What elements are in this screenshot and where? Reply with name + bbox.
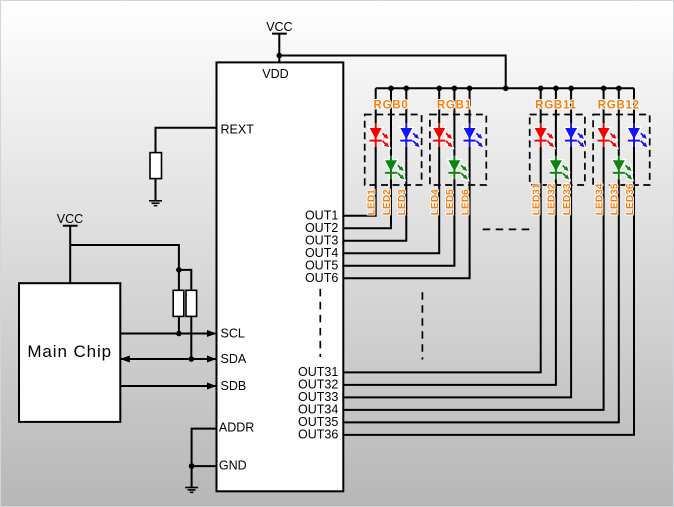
- svg-text:GND: GND: [219, 459, 247, 473]
- svg-text:LED35: LED35: [610, 183, 621, 215]
- svg-text:RGB11: RGB11: [535, 100, 576, 112]
- svg-text:SDA: SDA: [221, 352, 247, 366]
- svg-text:LED31: LED31: [532, 183, 543, 215]
- svg-text:ADDR: ADDR: [219, 421, 254, 435]
- svg-text:SDB: SDB: [221, 379, 247, 393]
- svg-text:VDD: VDD: [262, 67, 288, 81]
- svg-text:LED36: LED36: [625, 183, 636, 215]
- svg-text:LED3: LED3: [397, 189, 408, 215]
- svg-text:LED32: LED32: [547, 183, 558, 215]
- svg-text:LED5: LED5: [445, 189, 456, 215]
- svg-text:LED1: LED1: [367, 189, 378, 215]
- svg-text:RGB0: RGB0: [374, 100, 409, 112]
- svg-text:OUT36: OUT36: [298, 428, 338, 442]
- svg-text:SCL: SCL: [221, 327, 245, 341]
- svg-text:LED6: LED6: [460, 189, 471, 215]
- svg-text:RGB1: RGB1: [437, 100, 472, 112]
- svg-text:LED2: LED2: [382, 189, 393, 215]
- svg-text:VCC: VCC: [57, 212, 83, 226]
- svg-text:RGB12: RGB12: [598, 100, 640, 112]
- svg-text:LED33: LED33: [562, 183, 573, 215]
- svg-text:OUT6: OUT6: [305, 271, 338, 285]
- svg-text:VCC: VCC: [266, 20, 292, 34]
- svg-text:Main Chip: Main Chip: [27, 342, 112, 361]
- svg-text:REXT: REXT: [221, 123, 255, 137]
- svg-text:LED4: LED4: [430, 189, 441, 215]
- svg-text:LED34: LED34: [594, 183, 605, 215]
